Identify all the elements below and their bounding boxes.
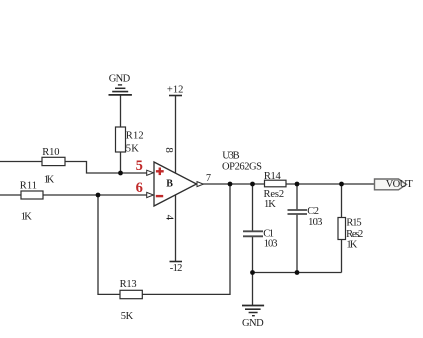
svg-text:8: 8 [163, 147, 175, 153]
svg-text:7: 7 [206, 173, 211, 184]
svg-text:5K: 5K [126, 144, 139, 155]
svg-text:OP262GS: OP262GS [222, 162, 262, 173]
svg-text:1K: 1K [346, 240, 357, 251]
svg-text:R11: R11 [20, 181, 37, 192]
svg-text:103: 103 [308, 217, 322, 228]
svg-text:1K: 1K [264, 199, 276, 210]
svg-text:-12: -12 [170, 263, 183, 274]
svg-text:GND: GND [242, 318, 264, 329]
svg-text:4: 4 [163, 215, 175, 221]
svg-text:103: 103 [264, 239, 278, 250]
svg-text:+12: +12 [167, 85, 184, 96]
svg-text:R15: R15 [346, 218, 361, 229]
svg-text:VOUT: VOUT [386, 179, 414, 190]
svg-text:1K: 1K [21, 211, 32, 222]
svg-text:6: 6 [136, 180, 143, 196]
svg-text:C2: C2 [307, 206, 319, 217]
svg-text:R10: R10 [42, 147, 59, 158]
svg-text:Res2: Res2 [346, 229, 363, 240]
svg-text:U3B: U3B [222, 150, 239, 161]
svg-text:R12: R12 [126, 130, 144, 141]
svg-text:5K: 5K [121, 311, 134, 322]
svg-text:R14: R14 [264, 171, 282, 182]
svg-text:R13: R13 [120, 279, 137, 290]
svg-text:GND: GND [109, 74, 131, 85]
svg-text:1K: 1K [44, 174, 55, 185]
svg-text:C1: C1 [263, 228, 274, 239]
svg-text:B: B [166, 179, 173, 190]
svg-text:5: 5 [136, 158, 143, 174]
